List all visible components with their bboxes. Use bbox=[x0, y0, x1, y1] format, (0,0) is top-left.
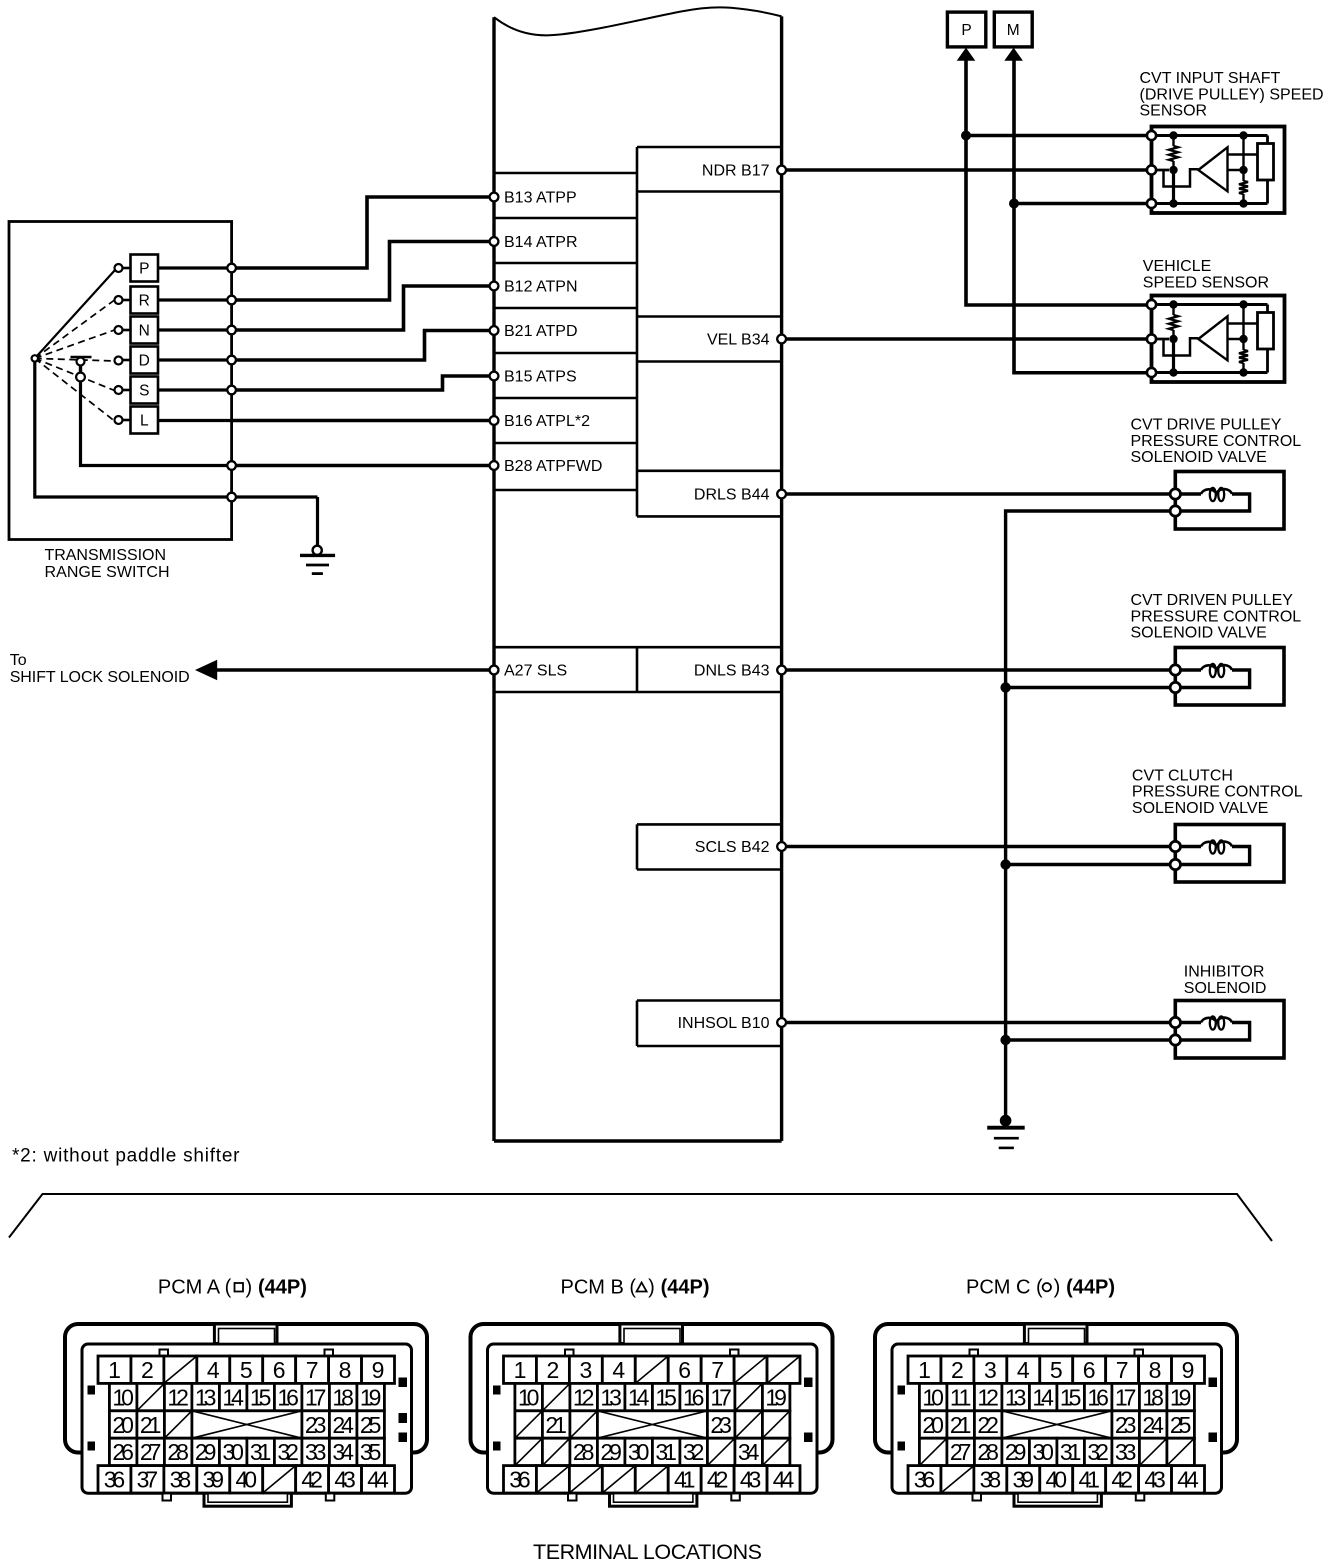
svg-text:29: 29 bbox=[1005, 1439, 1027, 1465]
svg-text:): ) bbox=[246, 1277, 253, 1299]
switch wall terminal bbox=[227, 461, 236, 470]
svg-text:SENSOR: SENSOR bbox=[1140, 103, 1208, 120]
svg-text:13: 13 bbox=[1005, 1384, 1027, 1410]
svg-text:38: 38 bbox=[980, 1467, 1002, 1493]
switch wall terminal bbox=[227, 356, 236, 365]
arrowhead shift lock bbox=[195, 660, 217, 681]
svg-text:*2: without paddle shifter: *2: without paddle shifter bbox=[12, 1146, 240, 1167]
svg-text:): ) bbox=[648, 1277, 655, 1299]
ground G101 bbox=[300, 546, 335, 574]
svg-text:29: 29 bbox=[195, 1439, 217, 1465]
switch wall terminal bbox=[227, 326, 236, 335]
svg-text:(44P): (44P) bbox=[661, 1277, 710, 1299]
svg-text:20: 20 bbox=[922, 1412, 944, 1438]
wire S contact stub bbox=[123, 389, 131, 392]
svg-text:10: 10 bbox=[518, 1384, 540, 1410]
svg-text:32: 32 bbox=[277, 1439, 299, 1465]
switch wall terminal bbox=[227, 264, 236, 273]
wire D to wall bbox=[158, 358, 232, 361]
wire D contact stub bbox=[123, 359, 131, 362]
svg-text:44: 44 bbox=[367, 1467, 389, 1493]
junction P branch bbox=[961, 131, 971, 141]
svg-text:21: 21 bbox=[950, 1412, 972, 1438]
svg-text:INHIBITOR: INHIBITOR bbox=[1184, 964, 1265, 981]
svg-text:PCM A (: PCM A ( bbox=[158, 1277, 232, 1299]
svg-text:6: 6 bbox=[1083, 1357, 1096, 1383]
svg-text:(DRIVE PULLEY) SPEED: (DRIVE PULLEY) SPEED bbox=[1140, 86, 1324, 103]
svg-text:7: 7 bbox=[711, 1357, 724, 1383]
wire to ground G101 bbox=[316, 497, 319, 546]
switch pivot bbox=[32, 355, 38, 361]
wire P branch to sensor bbox=[966, 134, 1152, 137]
svg-text:4: 4 bbox=[1017, 1357, 1030, 1383]
svg-text:25: 25 bbox=[360, 1412, 382, 1438]
svg-text:43: 43 bbox=[1144, 1467, 1166, 1493]
svg-text:24: 24 bbox=[332, 1412, 354, 1438]
svg-text:43: 43 bbox=[334, 1467, 356, 1493]
title PCM A (44P) bbox=[158, 1277, 307, 1299]
switch S contact bbox=[115, 386, 123, 394]
svg-text:6: 6 bbox=[678, 1357, 691, 1383]
PCM left terminal rows bbox=[494, 173, 637, 490]
switch wall terminal bbox=[227, 386, 236, 395]
wire DNLS B43 to driven pulley solenoid bbox=[782, 668, 1176, 671]
svg-text:5: 5 bbox=[240, 1357, 253, 1383]
svg-text:SOLENOID VALVE: SOLENOID VALVE bbox=[1131, 625, 1267, 642]
svg-text:PCM B (: PCM B ( bbox=[561, 1277, 637, 1299]
arrow to M bbox=[1004, 48, 1023, 61]
svg-text:27: 27 bbox=[950, 1439, 972, 1465]
svg-text:PRESSURE CONTROL: PRESSURE CONTROL bbox=[1131, 608, 1302, 625]
wire R to wall bbox=[158, 298, 232, 301]
switch dashed line to R contact bbox=[35, 300, 115, 358]
svg-text:19: 19 bbox=[360, 1384, 382, 1410]
PCM terminal left bbox=[490, 416, 499, 425]
svg-text:36: 36 bbox=[104, 1467, 126, 1493]
svg-text:26: 26 bbox=[112, 1439, 133, 1465]
svg-text:30: 30 bbox=[628, 1439, 650, 1465]
svg-text:12: 12 bbox=[167, 1384, 189, 1410]
svg-text:14: 14 bbox=[222, 1384, 244, 1410]
svg-text:SOLENOID VALVE: SOLENOID VALVE bbox=[1131, 449, 1267, 466]
svg-text:B13 ATPP: B13 ATPP bbox=[504, 190, 577, 207]
PCM terminal right bbox=[777, 842, 786, 851]
switch L contact bbox=[115, 416, 123, 424]
svg-text:38: 38 bbox=[170, 1467, 192, 1493]
svg-text:31: 31 bbox=[655, 1439, 677, 1465]
svg-text:4: 4 bbox=[207, 1357, 220, 1383]
svg-text:13: 13 bbox=[195, 1384, 217, 1410]
svg-text:16: 16 bbox=[277, 1384, 299, 1410]
switch D contact bbox=[115, 357, 123, 365]
wire B15 ATPS bbox=[232, 376, 494, 390]
svg-text:42: 42 bbox=[301, 1467, 323, 1493]
svg-text:8: 8 bbox=[339, 1357, 352, 1383]
PCM terminal left bbox=[490, 237, 499, 246]
svg-text:42: 42 bbox=[1111, 1467, 1133, 1493]
svg-text:D: D bbox=[139, 353, 150, 370]
svg-text:12: 12 bbox=[573, 1384, 595, 1410]
PCM terminal left bbox=[490, 193, 499, 202]
wire B16 ATPL bbox=[232, 419, 494, 423]
svg-text:14: 14 bbox=[628, 1384, 650, 1410]
svg-text:SCLS B42: SCLS B42 bbox=[695, 839, 770, 856]
switch dashed line to N contact bbox=[35, 330, 115, 358]
svg-text:36: 36 bbox=[509, 1467, 531, 1493]
switch position box N bbox=[131, 317, 159, 344]
svg-text:R: R bbox=[139, 293, 150, 310]
PCM terminal right bbox=[777, 335, 786, 344]
switch wall terminal bbox=[227, 296, 236, 305]
svg-text:(44P): (44P) bbox=[258, 1277, 307, 1299]
svg-text:CVT DRIVE PULLEY: CVT DRIVE PULLEY bbox=[1131, 417, 1282, 434]
svg-text:41: 41 bbox=[1078, 1467, 1100, 1493]
svg-text:3: 3 bbox=[984, 1357, 997, 1383]
svg-text:2: 2 bbox=[547, 1357, 560, 1383]
svg-text:10: 10 bbox=[922, 1384, 944, 1410]
switch arm to P contact bbox=[35, 270, 116, 359]
svg-text:TRANSMISSION: TRANSMISSION bbox=[45, 547, 167, 564]
wire B14 ATPR bbox=[232, 242, 494, 301]
switch R contact bbox=[115, 296, 123, 304]
section separator bbox=[9, 1194, 1272, 1241]
switch dashed line to D contact bbox=[35, 358, 115, 361]
svg-text:9: 9 bbox=[1182, 1357, 1195, 1383]
wire B13 ATPP bbox=[232, 197, 494, 268]
svg-text:23: 23 bbox=[1115, 1412, 1137, 1438]
svg-text:44: 44 bbox=[1177, 1467, 1199, 1493]
svg-text:7: 7 bbox=[1116, 1357, 1129, 1383]
svg-text:1: 1 bbox=[514, 1357, 527, 1383]
svg-text:1: 1 bbox=[918, 1357, 931, 1383]
svg-text:39: 39 bbox=[1013, 1467, 1034, 1493]
svg-text:DRLS B44: DRLS B44 bbox=[694, 487, 770, 504]
svg-text:40: 40 bbox=[235, 1467, 257, 1493]
svg-text:9: 9 bbox=[372, 1357, 385, 1383]
svg-text:VEL B34: VEL B34 bbox=[707, 332, 770, 349]
switch P contact bbox=[115, 264, 123, 272]
svg-text:24: 24 bbox=[1142, 1412, 1164, 1438]
svg-text:27: 27 bbox=[140, 1439, 162, 1465]
svg-text:44: 44 bbox=[773, 1467, 795, 1493]
wire B21 ATPD bbox=[232, 331, 494, 361]
connector PCM C (44P) bbox=[875, 1324, 1237, 1506]
svg-text:42: 42 bbox=[707, 1467, 729, 1493]
svg-text:P: P bbox=[961, 22, 971, 39]
wire inhibitor solenoid return bbox=[1006, 1038, 1176, 1041]
svg-text:12: 12 bbox=[977, 1384, 999, 1410]
PCM inner column cells bbox=[637, 147, 782, 1046]
svg-text:CVT INPUT SHAFT: CVT INPUT SHAFT bbox=[1140, 70, 1281, 87]
svg-text:PRESSURE CONTROL: PRESSURE CONTROL bbox=[1132, 784, 1303, 801]
solenoid L2 CVT driven pulley pressure control bbox=[1170, 648, 1284, 706]
svg-text:28: 28 bbox=[573, 1439, 595, 1465]
transmission range switch box bbox=[9, 222, 232, 540]
switch N contact bbox=[115, 326, 123, 334]
PCM body outline bbox=[494, 7, 782, 35]
svg-text:SOLENOID VALVE: SOLENOID VALVE bbox=[1132, 800, 1268, 817]
connector PCM A (44P) bbox=[65, 1324, 427, 1506]
switch position box D bbox=[131, 347, 159, 374]
junction inhibitor return bbox=[1000, 1035, 1010, 1045]
solenoid L1 CVT drive pulley pressure control bbox=[1170, 472, 1284, 530]
svg-text:28: 28 bbox=[977, 1439, 999, 1465]
connector PCM B (44P) bbox=[471, 1324, 833, 1506]
connector box M bbox=[994, 12, 1032, 47]
svg-text:39: 39 bbox=[203, 1467, 225, 1493]
svg-text:20: 20 bbox=[112, 1412, 133, 1438]
switch D-bridge contact circle lower bbox=[76, 373, 85, 382]
svg-text:19: 19 bbox=[1170, 1384, 1192, 1410]
wire B12 ATPN bbox=[232, 286, 494, 330]
switch D-bridge contact bar bbox=[71, 356, 92, 359]
title PCM B (44P) bbox=[561, 1277, 710, 1299]
svg-text:DNLS B43: DNLS B43 bbox=[694, 663, 770, 680]
svg-text:SHIFT LOCK SOLENOID: SHIFT LOCK SOLENOID bbox=[10, 669, 190, 686]
svg-text:10: 10 bbox=[112, 1384, 133, 1410]
svg-text:1: 1 bbox=[108, 1357, 121, 1383]
svg-text:B12 ATPN: B12 ATPN bbox=[504, 279, 578, 296]
svg-text:14: 14 bbox=[1032, 1384, 1054, 1410]
wire N contact stub bbox=[123, 329, 131, 332]
svg-text:SPEED SENSOR: SPEED SENSOR bbox=[1143, 274, 1269, 291]
junction M branch bbox=[1009, 199, 1019, 209]
wire M bus bbox=[1014, 59, 1152, 373]
svg-text:33: 33 bbox=[1115, 1439, 1137, 1465]
junction driven pulley return bbox=[1000, 682, 1010, 692]
wire P contact stub bbox=[123, 267, 131, 270]
wire VEL B34 to vehicle speed sensor bbox=[782, 337, 1152, 340]
svg-text:NDR B17: NDR B17 bbox=[702, 163, 770, 180]
switch dashed line to S contact bbox=[35, 358, 115, 390]
PCM A27 row bbox=[494, 647, 782, 692]
wire ATPFWD inside switch bbox=[81, 381, 232, 466]
svg-text:PCM C (: PCM C ( bbox=[966, 1277, 1043, 1299]
svg-text:CVT CLUTCH: CVT CLUTCH bbox=[1132, 767, 1233, 784]
wire P bus bbox=[966, 59, 1152, 305]
junction clutch return bbox=[1000, 859, 1010, 869]
svg-text:30: 30 bbox=[1032, 1439, 1054, 1465]
PCM terminal right bbox=[777, 666, 786, 675]
svg-text:37: 37 bbox=[137, 1467, 159, 1493]
svg-text:8: 8 bbox=[1149, 1357, 1162, 1383]
PCM terminal A27 bbox=[490, 666, 499, 675]
svg-text:VEHICLE: VEHICLE bbox=[1143, 258, 1211, 275]
svg-text:17: 17 bbox=[1115, 1384, 1137, 1410]
PCM terminal left bbox=[490, 282, 499, 291]
svg-text:17: 17 bbox=[305, 1384, 327, 1410]
svg-text:4: 4 bbox=[612, 1357, 625, 1383]
svg-text:31: 31 bbox=[1060, 1439, 1082, 1465]
svg-text:A27 SLS: A27 SLS bbox=[504, 663, 567, 680]
svg-text:15: 15 bbox=[250, 1384, 272, 1410]
sensor U2 vehicle speed sensor bbox=[1147, 296, 1285, 383]
svg-text:33: 33 bbox=[305, 1439, 327, 1465]
svg-text:P: P bbox=[139, 261, 149, 278]
svg-text:B15 ATPS: B15 ATPS bbox=[504, 369, 577, 386]
svg-text:32: 32 bbox=[1087, 1439, 1109, 1465]
svg-text:17: 17 bbox=[710, 1384, 732, 1410]
svg-text:): ) bbox=[1054, 1277, 1061, 1299]
svg-text:29: 29 bbox=[600, 1439, 622, 1465]
PCM terminal left bbox=[490, 372, 499, 381]
sensor U1 CVT input shaft speed sensor bbox=[1147, 127, 1285, 214]
wire SCLS B42 to clutch solenoid bbox=[782, 845, 1176, 848]
svg-text:28: 28 bbox=[167, 1439, 189, 1465]
switch D-bridge vertical bbox=[79, 359, 82, 377]
svg-text:21: 21 bbox=[545, 1412, 567, 1438]
wire S to wall bbox=[158, 388, 232, 391]
switch position box P bbox=[131, 255, 159, 282]
svg-text:L: L bbox=[140, 413, 149, 430]
svg-text:18: 18 bbox=[332, 1384, 354, 1410]
svg-text:SOLENOID: SOLENOID bbox=[1184, 980, 1267, 997]
wire DRLS B44 to drive pulley solenoid bbox=[782, 492, 1176, 495]
svg-text:M: M bbox=[1007, 22, 1020, 39]
connector box P bbox=[947, 12, 985, 47]
switch position box R bbox=[131, 287, 159, 314]
svg-text:CVT DRIVEN PULLEY: CVT DRIVEN PULLEY bbox=[1131, 592, 1294, 609]
wire clutch solenoid return bbox=[1006, 863, 1176, 866]
wire P to wall bbox=[158, 266, 232, 269]
svg-text:15: 15 bbox=[1060, 1384, 1082, 1410]
svg-text:6: 6 bbox=[273, 1357, 286, 1383]
svg-text:16: 16 bbox=[683, 1384, 705, 1410]
svg-text:41: 41 bbox=[674, 1467, 696, 1493]
svg-text:B21 ATPD: B21 ATPD bbox=[504, 323, 578, 340]
svg-text:22: 22 bbox=[977, 1412, 999, 1438]
svg-text:40: 40 bbox=[1045, 1467, 1067, 1493]
wire INHSOL B10 to inhibitor solenoid bbox=[782, 1021, 1176, 1024]
svg-text:B14 ATPR: B14 ATPR bbox=[504, 234, 578, 251]
PCM inner column vertical bbox=[636, 147, 639, 1046]
svg-text:3: 3 bbox=[579, 1357, 592, 1383]
svg-text:43: 43 bbox=[740, 1467, 762, 1493]
svg-text:7: 7 bbox=[306, 1357, 319, 1383]
svg-text:18: 18 bbox=[1142, 1384, 1164, 1410]
svg-text:PRESSURE CONTROL: PRESSURE CONTROL bbox=[1131, 433, 1302, 450]
wire drive pulley solenoid return bbox=[1006, 511, 1176, 1115]
svg-text:34: 34 bbox=[332, 1439, 354, 1465]
svg-text:25: 25 bbox=[1170, 1412, 1192, 1438]
svg-text:13: 13 bbox=[600, 1384, 622, 1410]
svg-text:19: 19 bbox=[765, 1384, 787, 1410]
wire L to wall bbox=[158, 419, 232, 422]
svg-text:21: 21 bbox=[140, 1412, 162, 1438]
title PCM C (44P) bbox=[966, 1277, 1115, 1299]
svg-text:23: 23 bbox=[710, 1412, 732, 1438]
wire NDR B17 to input shaft speed sensor bbox=[782, 168, 1152, 171]
svg-text:30: 30 bbox=[222, 1439, 244, 1465]
svg-text:16: 16 bbox=[1087, 1384, 1109, 1410]
wire R contact stub bbox=[123, 299, 131, 302]
switch dashed line to L contact bbox=[35, 358, 115, 421]
switch position box L bbox=[131, 407, 159, 434]
wire driven pulley solenoid return bbox=[1006, 686, 1176, 689]
svg-text:35: 35 bbox=[360, 1439, 382, 1465]
PCM terminal right bbox=[777, 166, 786, 175]
PCM terminal right bbox=[777, 490, 786, 499]
solenoid L3 CVT clutch pressure control bbox=[1170, 825, 1284, 883]
svg-text:32: 32 bbox=[683, 1439, 705, 1465]
svg-text:(44P): (44P) bbox=[1066, 1277, 1115, 1299]
PCM terminal right bbox=[777, 1018, 786, 1027]
wire B28 ATPFWD bbox=[232, 464, 494, 468]
svg-text:TERMINAL LOCATIONS: TERMINAL LOCATIONS bbox=[533, 1540, 762, 1564]
ground G102 bbox=[987, 1115, 1024, 1148]
svg-text:RANGE SWITCH: RANGE SWITCH bbox=[45, 564, 170, 581]
svg-text:5: 5 bbox=[1050, 1357, 1063, 1383]
wire L contact stub bbox=[123, 419, 131, 422]
svg-text:15: 15 bbox=[655, 1384, 677, 1410]
PCM terminal left bbox=[490, 666, 499, 675]
svg-text:31: 31 bbox=[250, 1439, 272, 1465]
svg-text:34: 34 bbox=[738, 1439, 760, 1465]
svg-text:23: 23 bbox=[305, 1412, 327, 1438]
svg-text:N: N bbox=[139, 323, 150, 340]
switch D-bridge contact circle upper bbox=[77, 358, 85, 366]
wire switch common pole bbox=[35, 362, 318, 498]
svg-text:B16 ATPL*2: B16 ATPL*2 bbox=[504, 413, 590, 430]
PCM terminal left bbox=[490, 326, 499, 335]
svg-text:S: S bbox=[139, 383, 149, 400]
svg-text:INHSOL B10: INHSOL B10 bbox=[678, 1015, 770, 1032]
arrow to P bbox=[957, 48, 976, 61]
solenoid L4 inhibitor solenoid bbox=[1170, 1001, 1284, 1059]
switch position box S bbox=[131, 377, 159, 404]
svg-text:2: 2 bbox=[141, 1357, 154, 1383]
wire M branch to sensor bbox=[1014, 202, 1152, 205]
svg-text:To: To bbox=[10, 652, 27, 669]
svg-text:B28 ATPFWD: B28 ATPFWD bbox=[504, 458, 602, 475]
switch wall terminal bbox=[227, 493, 236, 502]
PCM terminal left bbox=[490, 461, 499, 470]
wire N to wall bbox=[158, 328, 232, 331]
svg-text:2: 2 bbox=[951, 1357, 964, 1383]
wire A27 SLS to shift lock solenoid bbox=[213, 668, 494, 671]
svg-text:36: 36 bbox=[914, 1467, 936, 1493]
svg-text:11: 11 bbox=[950, 1384, 972, 1410]
